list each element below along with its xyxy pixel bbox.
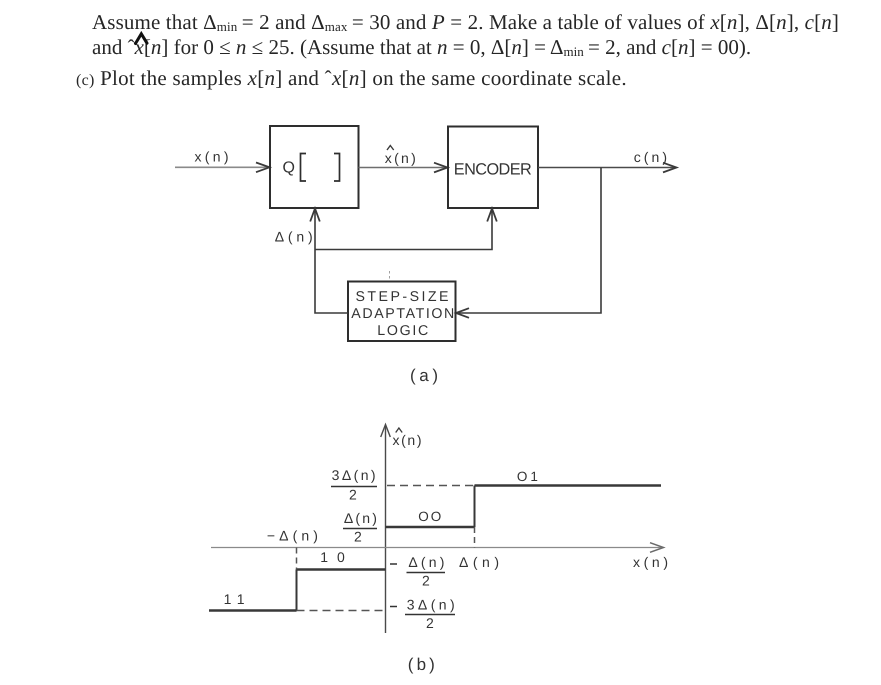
svg-text:(a): (a)	[410, 366, 438, 385]
svg-text:11: 11	[224, 591, 245, 607]
svg-text:STEP-SIZE: STEP-SIZE	[356, 289, 449, 305]
scan artifact dotted mark above step-size box	[389, 271, 391, 281]
svg-text:Δ(n): Δ(n)	[275, 229, 313, 245]
paragraph line 2	[92, 37, 751, 58]
fraction bar	[407, 572, 446, 574]
svg-text:x(n): x(n)	[633, 554, 668, 570]
svg-text:−Δ(n): −Δ(n)	[267, 528, 318, 544]
svg-text:2: 2	[422, 573, 430, 589]
wire: x(n) input line	[175, 166, 268, 168]
svg-text:2: 2	[354, 529, 362, 545]
fraction bar	[343, 528, 377, 530]
big brackets inside Q box	[301, 154, 307, 182]
svg-text:LOGIC: LOGIC	[377, 323, 428, 339]
dashed line at 3delta/2 from axis to step corner	[387, 485, 475, 487]
svg-text:(b): (b)	[408, 655, 435, 674]
staircase riser at x=delta	[474, 486, 476, 528]
paragraph line 3 (c)	[76, 68, 627, 89]
x axis	[211, 547, 661, 549]
svg-text:3Δ(n): 3Δ(n)	[332, 467, 376, 483]
svg-text:x(n): x(n)	[195, 149, 229, 165]
bold inserted caret annotation over x in line 2	[136, 34, 148, 44]
svg-text:x(n): x(n)	[385, 150, 416, 166]
staircase step at -delta/2 level (10)	[297, 568, 386, 570]
svg-text:c(n): c(n)	[634, 149, 667, 165]
svg-text:OO: OO	[418, 509, 441, 524]
paragraph line 1	[92, 12, 839, 33]
label -3delta(n)/2 minus sign	[390, 606, 397, 608]
dashed riser at x=delta down to axis	[474, 527, 476, 548]
arrowhead into step-size box right side	[456, 308, 469, 318]
arrowhead into Q box	[256, 163, 270, 173]
step-size adaptation logic box	[348, 282, 456, 342]
svg-text:10: 10	[320, 549, 345, 565]
encoder box	[448, 127, 538, 209]
quantizer box Q[ ]	[270, 126, 359, 208]
svg-text:Δ(n): Δ(n)	[459, 554, 499, 570]
fraction bar	[331, 486, 377, 488]
arrowhead up into ENCODER bottom	[487, 209, 497, 222]
svg-text:2: 2	[349, 487, 357, 503]
arrowhead up into Q bottom	[310, 209, 320, 222]
staircase step at delta/2 level (00)	[386, 526, 475, 528]
arrowhead c(n)	[663, 163, 677, 173]
label -delta(n)/2 minus sign	[390, 563, 397, 565]
svg-text:x(n): x(n)	[393, 432, 422, 448]
svg-text:Q: Q	[283, 160, 296, 177]
wire: junction drop from c(n) line down	[457, 168, 601, 314]
wire: step-size output left then up into Q	[315, 210, 348, 313]
fraction bar	[405, 614, 455, 616]
svg-text:O1: O1	[517, 469, 538, 484]
y axis	[385, 426, 387, 633]
svg-text:3Δ(n): 3Δ(n)	[407, 597, 455, 613]
staircase step at -3delta/2 level (11)	[209, 609, 297, 611]
svg-text:2: 2	[426, 615, 434, 631]
wire: Q to ENCODER	[359, 167, 447, 169]
wire: branch to encoder bottom	[315, 210, 492, 250]
wire: ENCODER output to c(n) arrow	[538, 167, 675, 169]
svg-text:ADAPTATION: ADAPTATION	[351, 306, 454, 322]
hat over x on y axis label	[396, 428, 403, 433]
svg-text:ENCODER: ENCODER	[454, 160, 532, 178]
svg-text:Δ(n): Δ(n)	[408, 554, 444, 570]
y axis arrowhead	[381, 425, 391, 438]
svg-text:Δ(n): Δ(n)	[344, 510, 377, 526]
dashed riser at x=-delta up to axis	[296, 548, 298, 570]
dashed line at -3delta/2 from step to axis	[297, 610, 386, 612]
hat over x	[387, 146, 394, 151]
staircase riser at x=-delta	[296, 570, 298, 611]
staircase step at 3delta/2 level (01)	[475, 484, 662, 486]
x axis arrowhead	[650, 543, 664, 553]
arrowhead into ENCODER	[434, 163, 448, 173]
